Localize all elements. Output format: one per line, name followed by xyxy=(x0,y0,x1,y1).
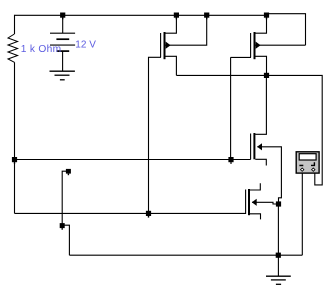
transistor Q1 drain lead xyxy=(166,15,177,33)
transistor Q2 channel bar xyxy=(254,32,256,59)
multimeter plus mark xyxy=(311,162,315,166)
transistor Q1 channel bar xyxy=(164,32,166,59)
transistor Q1 bulk lead xyxy=(166,15,207,45)
junction battery top xyxy=(60,13,65,18)
transistor Q2 gate bar xyxy=(250,33,252,57)
transistor Q1 source lead xyxy=(166,56,177,75)
junction Q1 drain top xyxy=(174,13,179,18)
junction source rail 4way xyxy=(264,73,269,78)
wire Q2 gate lead y=57.3 xyxy=(231,56,251,58)
wire battery top lead xyxy=(62,15,64,33)
wire battery bottom lead xyxy=(62,51,64,71)
wire source rail y=75.4 xyxy=(176,75,322,184)
transistor Q3 channel bar xyxy=(253,133,255,159)
wire Q4 bulk drop x=278.4 xyxy=(277,204,279,255)
ground G2 bottom right xyxy=(266,275,291,277)
transistor Q4 channel bar xyxy=(248,189,250,215)
multimeter terminal left xyxy=(300,167,305,172)
multimeter terminal right xyxy=(311,167,316,172)
wire ground drop xyxy=(277,255,279,276)
junction mid rail left xyxy=(12,157,17,162)
multimeter minus mark xyxy=(299,165,303,167)
transistor Q2 drain lead xyxy=(256,15,267,33)
transistor Q3 bulk lead xyxy=(257,147,281,204)
transistor Q1 arrow xyxy=(166,42,171,49)
wire bottom rail y=255.2 xyxy=(69,254,302,256)
resistor R1 zigzag xyxy=(8,34,18,62)
junction Q4 bulk xyxy=(276,201,281,206)
wire top rail right jog y=13.7 xyxy=(267,13,306,15)
transistor Q4 source stub xyxy=(250,214,261,220)
wire Q2 bulk to loop y=45.2 xyxy=(256,44,306,46)
junction Q2 drain top xyxy=(264,13,269,18)
junction bottom rail ground xyxy=(276,253,281,258)
svg-text:12 V: 12 V xyxy=(75,40,96,51)
multimeter display xyxy=(299,154,316,160)
transistor Q1 gate lead xyxy=(149,57,162,213)
transistor Q3 gate bar xyxy=(250,134,252,160)
node dangling square xyxy=(66,169,71,174)
wire dangling node branch xyxy=(62,171,66,225)
wire right loop down x=305.5 xyxy=(305,13,307,45)
wire mid rail y=159.5 xyxy=(15,159,251,161)
wire Q2 gate drop x=231 xyxy=(230,57,232,159)
wire meter left terminal drop x=302.3 xyxy=(301,171,303,255)
wire top rail y=15.3 xyxy=(15,14,267,16)
junction Q1 bulk top xyxy=(204,13,209,18)
transistor Q3 arrow xyxy=(257,143,262,150)
svg-text:1 k Ohm: 1 k Ohm xyxy=(21,44,62,55)
transistor Q2 source lead xyxy=(256,56,267,75)
transistor Q4 gate bar xyxy=(245,190,247,215)
junction bottom rail Q1 gate xyxy=(146,211,151,216)
transistor Q3 source stub xyxy=(255,159,266,165)
wire bottom y=213.4 to Q4 gate xyxy=(15,212,246,214)
transistor Q4 bulk lead xyxy=(252,202,279,204)
transistor Q1 gate bar xyxy=(160,33,162,57)
transistor Q3 drain lead xyxy=(255,75,266,134)
wire left rail x=14.5 xyxy=(14,62,16,213)
wire left rail top x=14.5 xyxy=(14,15,16,34)
transistor Q2 arrow xyxy=(256,42,261,49)
multimeter U1 body xyxy=(296,152,319,173)
wire dangling node branch lower xyxy=(62,225,69,255)
ground G1 under battery xyxy=(50,70,75,72)
junction dangling mid xyxy=(60,223,65,228)
transistor Q4 arrow xyxy=(252,199,257,206)
battery V1 plates xyxy=(50,32,75,34)
junction mid rail Q3 gate xyxy=(228,157,233,162)
transistor Q4 drain stub xyxy=(250,183,260,190)
